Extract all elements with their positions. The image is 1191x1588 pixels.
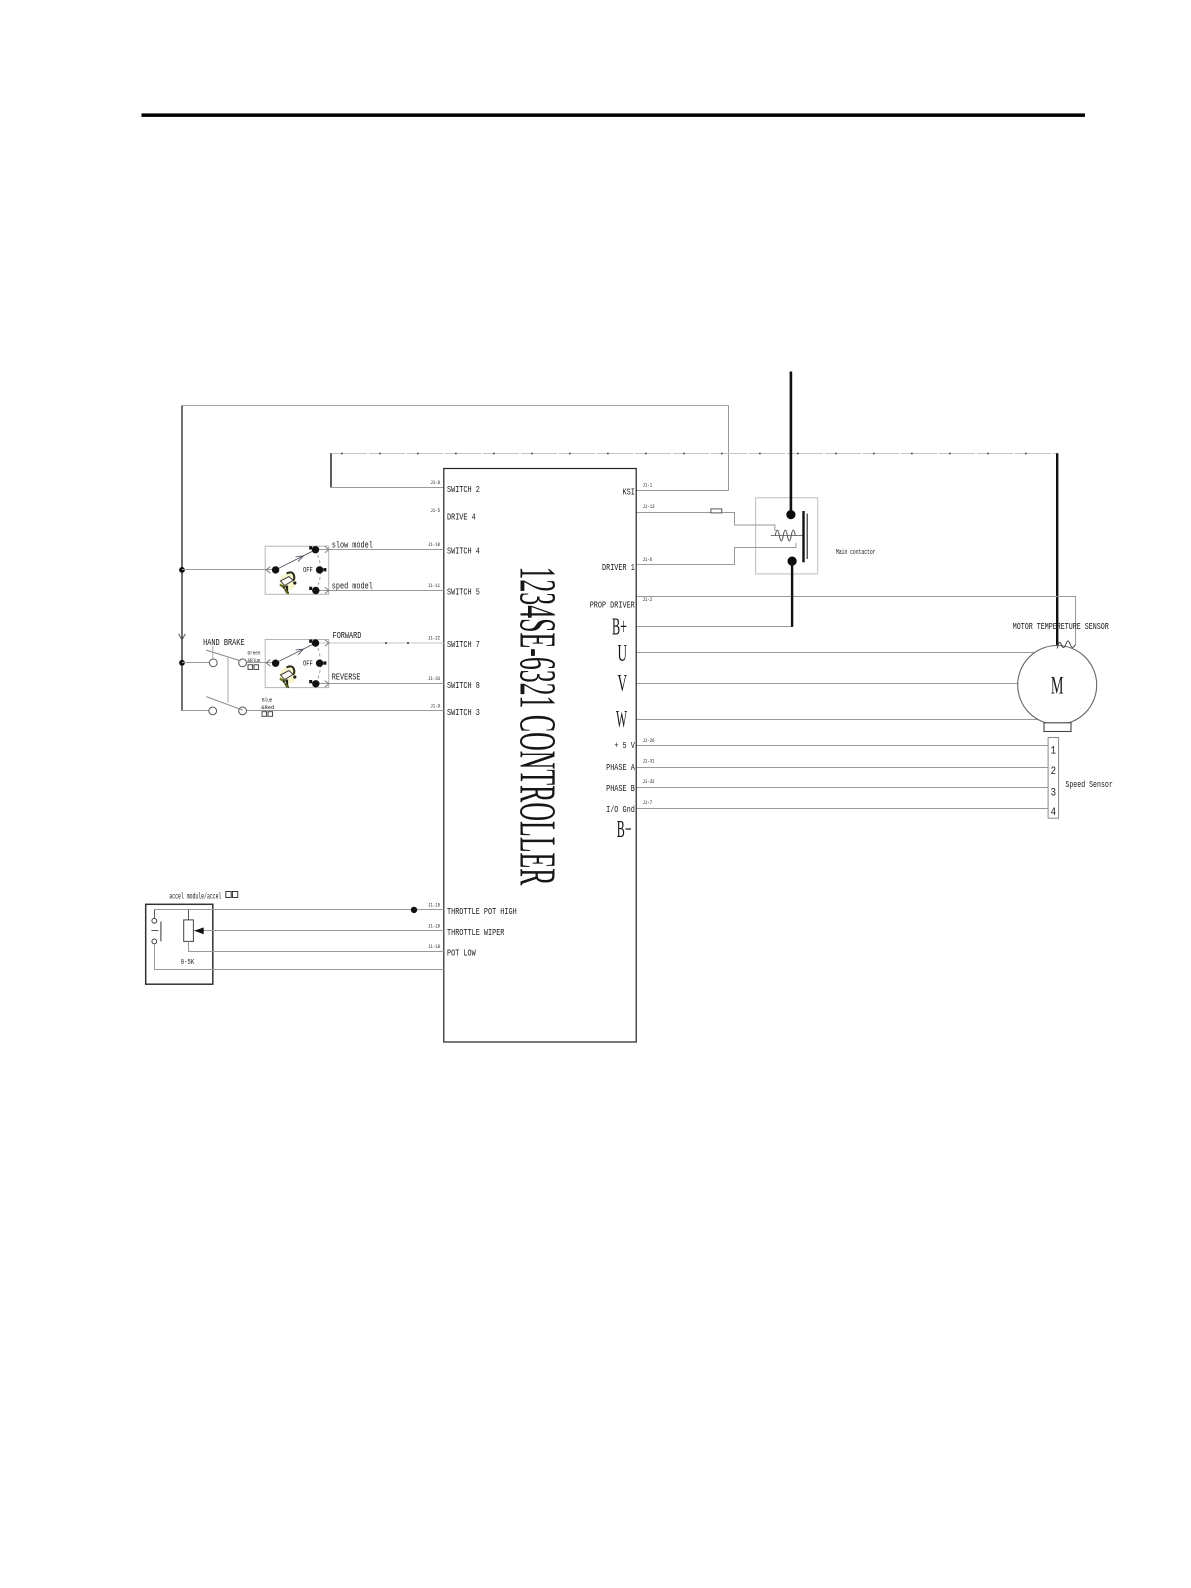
svg-text:DRIVE 4: DRIVE 4 xyxy=(447,513,476,523)
svg-text:PROP DRIVER: PROP DRIVER xyxy=(590,601,636,611)
svg-text:Blue: Blue xyxy=(262,696,272,703)
svg-text:THROTTLE POT HIGH: THROTTLE POT HIGH xyxy=(447,907,517,917)
svg-text:DRIVER 1: DRIVER 1 xyxy=(602,563,635,573)
svg-text:SWITCH 4: SWITCH 4 xyxy=(447,547,480,557)
svg-text:SWITCH 7: SWITCH 7 xyxy=(447,640,480,650)
svg-text:J1-1: J1-1 xyxy=(643,482,653,488)
svg-text:J1-2: J1-2 xyxy=(643,597,653,603)
svg-text:slow model: slow model xyxy=(332,541,373,551)
svg-text:J1-18: J1-18 xyxy=(428,944,440,950)
svg-text:THROTTLE WIPER: THROTTLE WIPER xyxy=(447,928,505,938)
svg-text:SWITCH 2: SWITCH 2 xyxy=(447,485,480,495)
svg-text:J1-8: J1-8 xyxy=(430,480,440,486)
svg-text:J1-11: J1-11 xyxy=(428,583,440,589)
svg-text:U: U xyxy=(618,641,628,667)
svg-text:OFF: OFF xyxy=(303,567,313,575)
svg-text:J1-31: J1-31 xyxy=(643,759,655,765)
svg-text:J1-26: J1-26 xyxy=(643,738,655,744)
svg-text:SWITCH 8: SWITCH 8 xyxy=(447,681,480,691)
svg-text:J1-16: J1-16 xyxy=(428,923,440,929)
svg-text:PHASE A: PHASE A xyxy=(606,763,635,773)
svg-text:M: M xyxy=(1051,671,1064,700)
svg-text:J1-6: J1-6 xyxy=(643,557,653,563)
svg-text:HAND BRAKE: HAND BRAKE xyxy=(203,638,245,648)
svg-text:sped model: sped model xyxy=(332,581,373,591)
svg-text:V: V xyxy=(618,671,628,697)
svg-text:J1-5: J1-5 xyxy=(430,508,440,514)
svg-text:4: 4 xyxy=(1051,807,1057,819)
svg-text:J1-22: J1-22 xyxy=(428,635,440,641)
svg-text:I/O Gnd: I/O Gnd xyxy=(606,805,635,815)
svg-text:B+: B+ xyxy=(612,615,627,641)
svg-text:J1-15: J1-15 xyxy=(428,902,440,908)
svg-text:Main contactor: Main contactor xyxy=(836,549,876,557)
svg-text:REVERSE: REVERSE xyxy=(332,673,361,683)
svg-text:&Red: &Red xyxy=(261,704,274,711)
svg-text:2: 2 xyxy=(1051,766,1056,778)
svg-text:KSI: KSI xyxy=(623,487,635,497)
svg-text:J1-7: J1-7 xyxy=(643,800,653,806)
svg-text:0-5K: 0-5K xyxy=(181,959,195,967)
svg-text:&Blue: &Blue xyxy=(248,657,261,664)
svg-text:OFF: OFF xyxy=(303,660,313,668)
svg-text:1: 1 xyxy=(1051,745,1057,757)
svg-text:Green: Green xyxy=(248,649,261,656)
svg-text:J1-33: J1-33 xyxy=(428,676,440,682)
svg-text:J1-9: J1-9 xyxy=(430,703,440,709)
svg-text:MOTOR TEMPERETURE SENSOR: MOTOR TEMPERETURE SENSOR xyxy=(1013,622,1109,632)
svg-text:3: 3 xyxy=(1051,788,1056,800)
svg-text:J1-10: J1-10 xyxy=(428,542,440,548)
svg-text:J1-13: J1-13 xyxy=(643,504,655,510)
svg-text:SWITCH 3: SWITCH 3 xyxy=(447,708,480,718)
svg-text:accel module/accel: accel module/accel xyxy=(169,893,221,902)
svg-text:1234SE-6321 CONTROLLER: 1234SE-6321 CONTROLLER xyxy=(509,567,566,886)
svg-text:W: W xyxy=(616,707,627,733)
svg-text:SWITCH 5: SWITCH 5 xyxy=(447,588,480,598)
svg-text:J1-32: J1-32 xyxy=(643,779,655,785)
svg-text:POT LOW: POT LOW xyxy=(447,949,476,959)
svg-text:+ 5 V: + 5 V xyxy=(614,741,635,751)
svg-text:FORWARD: FORWARD xyxy=(333,631,362,641)
svg-text:PHASE B: PHASE B xyxy=(606,784,635,794)
svg-text:Speed Sensor: Speed Sensor xyxy=(1065,780,1112,790)
svg-text:B−: B− xyxy=(617,817,632,843)
